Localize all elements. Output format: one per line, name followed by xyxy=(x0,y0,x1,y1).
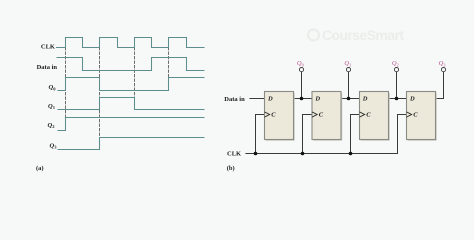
wire CLK riser to C of U4 xyxy=(398,115,407,154)
wire Data in to D of U1 xyxy=(250,98,265,100)
dashed clock-edge line 3 xyxy=(134,48,136,110)
junction dot CLK bus 3 xyxy=(349,152,353,156)
Q1 waveform xyxy=(58,98,204,110)
flip-flop U2 xyxy=(312,92,342,141)
flip-flop U3 xyxy=(360,92,390,141)
svg-text:C: C xyxy=(366,112,371,119)
watermark CourseSmart xyxy=(308,27,404,43)
wire riser to Q2 terminal xyxy=(396,72,398,99)
junction dot on D wire node Q1 xyxy=(347,97,351,101)
svg-text:CLK: CLK xyxy=(41,44,55,51)
svg-text:D: D xyxy=(362,96,368,103)
Q2 waveform xyxy=(58,118,204,131)
dashed clock-edge line 1 xyxy=(65,48,67,131)
wire riser to Q0 terminal xyxy=(301,72,303,99)
svg-text:D: D xyxy=(267,96,273,103)
wire CLK riser to C of U1 xyxy=(256,115,265,154)
junction dot on D wire node Q0 xyxy=(300,97,304,101)
junction dot CLK bus 1 xyxy=(254,152,258,156)
svg-text:D: D xyxy=(409,96,415,103)
svg-text:D: D xyxy=(314,96,320,103)
wire CLK riser to C of U2 xyxy=(303,115,313,154)
wire Q of U3 to D of U4 xyxy=(389,98,407,100)
CLK waveform xyxy=(57,38,205,48)
terminal labels xyxy=(297,60,446,67)
wires xyxy=(246,72,444,154)
panel b labels xyxy=(224,96,245,172)
svg-text:CLK: CLK xyxy=(227,151,241,158)
wire Q of U4 to Q3 terminal xyxy=(435,72,444,99)
dashed clock-edge line 2 xyxy=(99,48,101,150)
junction dot on D wire node Q2 xyxy=(395,97,399,101)
Data in waveform xyxy=(57,58,204,71)
CLK bus wire xyxy=(246,153,398,155)
svg-text:Data in: Data in xyxy=(224,96,245,103)
svg-text:C: C xyxy=(413,112,418,119)
flip-flop U1 xyxy=(265,92,295,141)
dashed clock-edge line 4 xyxy=(168,48,170,91)
svg-text:C: C xyxy=(271,112,276,119)
output terminal Q1 xyxy=(346,68,350,72)
junction dot CLK bus 2 xyxy=(301,152,305,156)
output terminal Q3 xyxy=(441,68,445,72)
svg-text:(a): (a) xyxy=(36,165,44,172)
flip-flop U4 xyxy=(407,92,437,141)
svg-text:C: C xyxy=(319,112,324,119)
Q0 waveform xyxy=(58,78,204,91)
timing diagram labels xyxy=(36,44,57,172)
svg-text:(b): (b) xyxy=(227,165,235,172)
output terminal Q2 xyxy=(394,68,398,72)
output terminal Q0 xyxy=(299,68,303,72)
svg-text:Data in: Data in xyxy=(37,64,58,71)
Q3 waveform xyxy=(58,138,204,150)
wire Q of U2 to D of U3 xyxy=(341,98,360,100)
wire CLK riser to C of U3 xyxy=(351,115,360,154)
svg-text:CourseSmart: CourseSmart xyxy=(322,27,404,43)
wire riser to Q1 terminal xyxy=(348,72,350,99)
wire Q of U1 to D of U2 xyxy=(294,98,313,100)
